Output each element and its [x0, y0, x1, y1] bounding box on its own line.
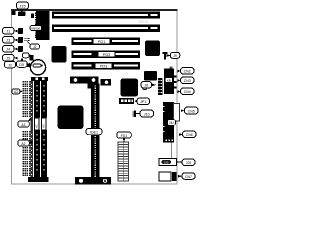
connector J15 target — [18, 12, 26, 17]
jumper J25 box — [159, 143, 182, 166]
svg-text:JP1: JP1 — [140, 100, 146, 104]
svg-text:28374: 28374 — [138, 20, 148, 24]
board outline — [12, 10, 178, 184]
svg-text:NU: NU — [169, 121, 174, 125]
jumper block JP1 — [119, 98, 134, 104]
callout J10 — [140, 110, 154, 117]
floppy header FD1 (outlined ladder) — [118, 142, 129, 181]
PCI slot 3 — [72, 62, 141, 70]
right callout CN6 — [179, 131, 196, 138]
T pin J9 — [162, 52, 170, 60]
svg-text:CN6: CN6 — [186, 133, 193, 137]
PCI slot 1 — [72, 38, 141, 46]
left callout J3 — [3, 37, 18, 44]
svg-text:IDE1: IDE1 — [90, 131, 98, 135]
svg-text:CN7: CN7 — [185, 175, 192, 179]
svg-text:J5: J5 — [6, 57, 10, 61]
svg-text:A1: A1 — [21, 123, 25, 127]
board top edge — [11, 9, 178, 11]
ISA slot 1 — [52, 12, 160, 19]
chip U3 (top right) — [145, 41, 160, 57]
svg-text:KB: KB — [167, 79, 171, 83]
left callout J2 pair — [5, 61, 31, 68]
callout J8 — [141, 82, 156, 89]
label J2 below keyboard connector — [28, 42, 40, 50]
left callout J1 — [3, 28, 18, 35]
svg-text:FD1: FD1 — [121, 134, 128, 138]
connector J4 target — [18, 46, 23, 52]
right callout CN2 — [178, 68, 195, 75]
chip U5 — [144, 71, 157, 81]
jumper J10 pin — [133, 111, 140, 118]
IDE header J6 (vertical) — [86, 84, 102, 178]
right callout CN5 — [181, 107, 198, 114]
SIMM socket 1 — [34, 81, 40, 177]
chip U7 (CPU) — [58, 106, 84, 130]
connector J5 target pin — [21, 59, 23, 65]
callout J9 — [170, 52, 180, 58]
svg-text:J3: J3 — [6, 39, 10, 43]
chip U2 — [52, 46, 67, 63]
svg-text:KB600: KB600 — [31, 26, 40, 30]
connector J15 callout — [17, 2, 29, 12]
corner connector — [12, 11, 16, 15]
svg-text:D5: D5 — [19, 63, 24, 67]
pin grid J17 — [25, 38, 30, 41]
pin header J8 — [158, 78, 163, 95]
floppy header FD1 callout — [117, 132, 132, 142]
SIMM pin column — [31, 81, 34, 178]
PCI slot 2 — [72, 51, 141, 59]
keyboard/mouse connector CN1 — [164, 67, 176, 95]
SIMM footer — [28, 177, 49, 182]
svg-text:PCI2: PCI2 — [103, 53, 111, 57]
keyboard connector KB1 — [30, 11, 50, 40]
svg-text:J25: J25 — [164, 160, 169, 164]
svg-text:J1: J1 — [6, 30, 10, 34]
svg-text:CN4: CN4 — [184, 90, 191, 94]
svg-text:J8: J8 — [144, 84, 148, 88]
connector P8 block — [30, 55, 34, 61]
SIMM mid labels — [34, 118, 46, 130]
connector CN7 (open square + black bar) — [159, 172, 177, 181]
SIMM dot grid — [22, 81, 30, 176]
SIMM socket 2 — [41, 81, 47, 177]
callout JP1 — [134, 98, 149, 105]
parallel port connector CN5 — [163, 102, 180, 143]
SIMM cap labels — [31, 77, 48, 81]
svg-text:A2: A2 — [42, 124, 46, 128]
svg-text:J15: J15 — [19, 4, 26, 9]
svg-text:J25: J25 — [186, 161, 192, 165]
battery holder bar — [27, 64, 34, 68]
IDE footer with mounting holes — [75, 177, 111, 185]
left callout J4 — [3, 46, 18, 53]
svg-text:J2: J2 — [8, 64, 12, 68]
crystal Y1 (circle) — [142, 85, 147, 90]
svg-text:J2: J2 — [33, 45, 37, 49]
battery BT1 — [30, 60, 45, 75]
connector J1 target — [18, 28, 23, 34]
svg-text:A1: A1 — [35, 124, 39, 128]
svg-text:J10: J10 — [144, 113, 150, 117]
right callout J25 — [182, 159, 195, 166]
box with dot U6 — [101, 79, 112, 86]
svg-text:A2: A2 — [21, 142, 25, 146]
connector J3 target — [18, 37, 23, 43]
right callout CN3 — [178, 77, 195, 84]
svg-text:CN2: CN2 — [184, 70, 191, 74]
left callout bank0 — [12, 89, 23, 94]
left callout SIM2 — [18, 140, 33, 146]
callout J24 (on-board) — [23, 53, 30, 58]
left callout SIM1 — [18, 118, 32, 128]
right callout CN7 — [178, 173, 195, 180]
right callout CN4 — [178, 88, 195, 95]
power connector block — [31, 14, 34, 19]
svg-text:J9: J9 — [173, 54, 177, 58]
ISA slot 2 — [52, 25, 160, 33]
svg-text:CN3: CN3 — [184, 79, 191, 83]
left callout J5 — [3, 55, 18, 62]
svg-text:PCI3: PCI3 — [100, 65, 108, 69]
svg-text:PCI1: PCI1 — [98, 40, 106, 44]
chip U4 (big center) — [121, 79, 139, 97]
svg-text:J4: J4 — [6, 48, 10, 52]
svg-text:CN5: CN5 — [188, 110, 195, 114]
svg-text:A3: A3 — [14, 90, 18, 94]
DIP switch SW1 — [70, 77, 99, 84]
